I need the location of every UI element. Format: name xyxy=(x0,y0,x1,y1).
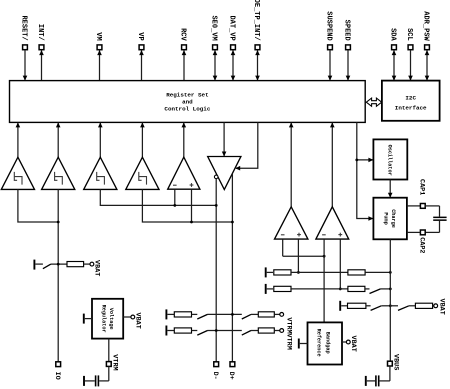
junction DPLUS row xyxy=(231,221,234,224)
U9 plus input mark xyxy=(297,233,301,237)
svg-text:VTRM: VTRM xyxy=(285,317,293,333)
pin SE0_VM xyxy=(213,45,218,81)
pin IO xyxy=(56,362,61,367)
junction U10 plus on row R4 xyxy=(339,288,342,291)
bidirectional bus arrow between U1 and U2 xyxy=(366,98,381,106)
svg-text:DAT_VP: DAT_VP xyxy=(228,15,236,40)
pin SUSPEND xyxy=(328,45,333,81)
svg-text:IO: IO xyxy=(53,372,61,380)
switch S2 xyxy=(370,289,381,294)
U7 minus input mark xyxy=(173,184,177,186)
resistor R10 xyxy=(174,328,191,333)
terminal bar U13 input xyxy=(83,314,85,324)
switch S8 xyxy=(242,331,251,336)
wire U13 to VBAT pin xyxy=(123,316,131,318)
junction R5 on VBUS net xyxy=(389,288,392,291)
switch S4 xyxy=(398,306,409,311)
pin OE_TP_INT/ xyxy=(255,45,260,81)
resistor R2 xyxy=(274,270,291,275)
svg-text:VBAT: VBAT xyxy=(349,336,357,352)
net DMINUS vertical wire xyxy=(215,179,217,362)
comparator U9 xyxy=(275,207,308,239)
resistor R6 xyxy=(348,303,366,308)
svg-text:VBAT: VBAT xyxy=(437,299,445,315)
schmitt buffer U6 xyxy=(126,157,159,189)
terminal bar row R10 xyxy=(165,326,167,336)
wire U6 output to U1 xyxy=(141,122,143,157)
pin SCL xyxy=(408,45,413,81)
wire charge pump to CAP2 xyxy=(407,231,421,233)
U10 plus input mark xyxy=(338,233,342,237)
junction row on D line xyxy=(231,313,234,316)
svg-text:VBAT: VBAT xyxy=(134,313,142,329)
pin VTRM xyxy=(106,362,111,367)
svg-text:VP: VP xyxy=(136,32,144,40)
wire U10 minus to bandgap xyxy=(323,239,325,321)
svg-text:SDA: SDA xyxy=(389,28,397,41)
resistor R4 xyxy=(274,286,291,291)
wire comparator U7 output to U1 xyxy=(183,122,185,157)
resistor R3 xyxy=(348,270,365,275)
U7 plus input mark xyxy=(190,183,194,187)
pin D+ xyxy=(230,362,235,367)
svg-text:SUSPEND: SUSPEND xyxy=(325,11,333,40)
terminal bar C2 xyxy=(83,376,85,386)
resistor R7 xyxy=(415,303,432,308)
pin VBAT (U14) xyxy=(346,340,350,344)
wire U9 minus to U10 minus net xyxy=(283,255,324,257)
wire U6 input to DPLUS xyxy=(142,189,232,222)
switch S7 xyxy=(197,331,207,336)
junction DMINUS row xyxy=(215,204,218,207)
pin DAT_VP xyxy=(231,45,236,81)
junction U7 plus on DPLUS row xyxy=(190,221,193,224)
pin INT/ xyxy=(39,45,44,81)
pin CAP2 xyxy=(420,230,425,235)
capacitor C1 plates xyxy=(433,217,446,219)
U10 minus input mark xyxy=(322,234,326,236)
wire U3 input to IO net xyxy=(18,189,58,222)
terminal bar U14 input xyxy=(298,339,300,349)
wire VBAT row xyxy=(35,263,43,265)
wire row R10 xyxy=(167,330,174,332)
pin VP xyxy=(139,45,144,81)
wire U7 plus to DPLUS xyxy=(191,189,193,222)
pin VTRM (R11) xyxy=(280,329,284,333)
svg-text:Oscillator: Oscillator xyxy=(387,145,393,176)
charge pump U12 xyxy=(373,198,407,240)
svg-text:and: and xyxy=(182,99,193,106)
capacitor C2 plates xyxy=(98,375,100,386)
wire charge pump to CAP1 xyxy=(407,205,421,207)
wire U5 input to DMINUS xyxy=(100,189,216,205)
svg-text:VTRM: VTRM xyxy=(285,334,293,350)
wire into U13 xyxy=(85,318,92,320)
schmitt buffer U3 xyxy=(1,157,34,189)
capacitor C3 plates xyxy=(378,375,380,386)
wire U13 to VTRM pin xyxy=(108,339,110,362)
net DPLUS vertical wire xyxy=(231,174,233,362)
wire U1 enable to driver U8 xyxy=(236,122,258,168)
bandgap reference U14 xyxy=(308,322,343,364)
svg-text:Interface: Interface xyxy=(395,104,427,111)
svg-text:Regulator: Regulator xyxy=(100,305,106,333)
svg-text:ADR_PSW: ADR_PSW xyxy=(422,11,430,41)
pin VBAT (R1) xyxy=(90,262,94,266)
svg-text:CAP2: CAP2 xyxy=(418,237,426,253)
svg-text:Register Set: Register Set xyxy=(166,92,208,99)
comparator U10 xyxy=(316,207,349,239)
svg-text:Charge: Charge xyxy=(390,209,396,228)
terminal bar row R4 xyxy=(265,284,267,294)
wire row R2 xyxy=(267,271,273,273)
svg-text:SE0_VM: SE0_VM xyxy=(210,15,218,40)
switch S6 xyxy=(242,314,251,319)
resistor R5 xyxy=(348,286,365,291)
wire into U14 xyxy=(300,343,308,345)
junction U3 input on IO net xyxy=(57,221,60,224)
junction R3 on VBUS net xyxy=(389,271,392,274)
comparator U7 xyxy=(168,157,200,189)
svg-text:INT/: INT/ xyxy=(36,24,44,41)
svg-text:VM: VM xyxy=(94,32,102,40)
switch S1 xyxy=(43,264,51,269)
svg-text:Bandgap: Bandgap xyxy=(324,332,330,354)
wire VTRM to capacitor C2 xyxy=(108,366,110,381)
pin ADR_PSW xyxy=(425,45,430,81)
oscillator U11 xyxy=(373,139,407,179)
svg-text:OE_TP_INT/: OE_TP_INT/ xyxy=(252,0,260,41)
junction oscillator branch xyxy=(355,159,358,162)
pin SPEED xyxy=(346,45,351,81)
wire branch to oscillator xyxy=(357,159,373,161)
voltage regulator U13 xyxy=(92,299,123,339)
svg-text:Voltage: Voltage xyxy=(108,308,114,330)
wire U7 minus to DMINUS xyxy=(174,189,176,205)
wire U1 to driver U8 input xyxy=(223,122,225,156)
svg-text:CAP1: CAP1 xyxy=(418,179,426,195)
register set and control logic U1 xyxy=(10,81,366,123)
svg-text:D+: D+ xyxy=(227,372,235,380)
driver U8 (down triangle) xyxy=(208,157,241,190)
wire U3 output to U1 xyxy=(17,122,19,157)
junction S1 on IO net xyxy=(57,263,60,266)
pin VTRM (R9) xyxy=(280,313,284,317)
pin SDA xyxy=(392,45,397,81)
switch S5 xyxy=(197,314,207,319)
switch S3 xyxy=(371,306,382,311)
resistor R8 xyxy=(174,312,191,317)
wire CAP1 to capacitor C1 xyxy=(425,205,439,207)
wire U4 output to U1 xyxy=(57,122,59,157)
svg-text:RCV: RCV xyxy=(179,28,187,41)
resistor R9 xyxy=(258,312,274,317)
pin CAP1 xyxy=(420,204,425,209)
wire comparator U9 output to U1 xyxy=(290,122,292,206)
pin RESET/ xyxy=(23,45,28,81)
U9 minus input mark xyxy=(281,234,285,236)
junction row R6 on VBUS net xyxy=(389,304,392,307)
driver U8 inverting bubble xyxy=(214,175,218,179)
pin RCV xyxy=(182,45,187,81)
svg-text:Reference: Reference xyxy=(316,329,322,357)
pin VBAT (U13) xyxy=(131,315,135,319)
wire capacitor C2 to terminal xyxy=(85,380,95,382)
wire U1 to oscillator and charge pump xyxy=(357,122,373,218)
terminal bar row R2 xyxy=(265,267,267,277)
pin VM xyxy=(97,45,102,81)
terminal bar C3 xyxy=(365,376,367,386)
junction U7 minus on DMINUS row xyxy=(173,204,176,207)
wire row R8 xyxy=(167,313,174,315)
resistor R1 xyxy=(67,262,84,267)
wire row R6 xyxy=(341,305,347,307)
junction U9 plus on row R2 xyxy=(297,271,300,274)
svg-text:Pump: Pump xyxy=(383,212,389,224)
junction U9/U10 minus xyxy=(323,255,326,258)
svg-text:VBUS: VBUS xyxy=(392,354,400,370)
pin VBUS xyxy=(388,361,393,366)
terminal bar row R8 xyxy=(165,309,167,319)
svg-text:SPEED: SPEED xyxy=(343,20,351,41)
svg-text:RESET/: RESET/ xyxy=(20,15,28,40)
wire U10 plus down xyxy=(339,239,341,289)
svg-text:D-: D- xyxy=(211,372,219,380)
wire comparator U10 output to U1 xyxy=(331,122,333,206)
wire U5 output to U1 xyxy=(99,122,101,157)
schmitt buffer U4 xyxy=(42,157,75,189)
wire oscillator to charge pump xyxy=(389,180,391,197)
I2C interface U2 xyxy=(382,81,440,121)
pin VBAT (R7) xyxy=(434,304,438,308)
resistor R11 xyxy=(258,328,274,333)
net VBUS vertical wire from charge pump xyxy=(389,239,391,361)
svg-text:Control Logic: Control Logic xyxy=(164,106,210,113)
wire row R4 xyxy=(267,288,273,290)
svg-text:I2C: I2C xyxy=(405,94,416,101)
wire capacitor C3 to terminal xyxy=(367,380,375,382)
svg-text:SCL: SCL xyxy=(405,28,413,41)
svg-text:VTRM: VTRM xyxy=(111,354,119,370)
terminal bar VBAT row xyxy=(33,260,35,270)
wire U14 to VBAT pin xyxy=(342,341,346,343)
terminal bar row R6 xyxy=(339,301,341,311)
wire capacitor C1 to CAP2 xyxy=(439,221,441,233)
net IO vertical wire xyxy=(57,189,59,361)
junction row on D line xyxy=(215,329,218,332)
wire U9 plus down xyxy=(297,239,299,272)
schmitt buffer U5 xyxy=(84,157,117,189)
wire VBUS to capacitor C3 xyxy=(389,366,391,381)
wire U9 minus down xyxy=(282,239,284,256)
svg-text:VBAT: VBAT xyxy=(93,260,101,276)
pin D- xyxy=(214,362,219,367)
